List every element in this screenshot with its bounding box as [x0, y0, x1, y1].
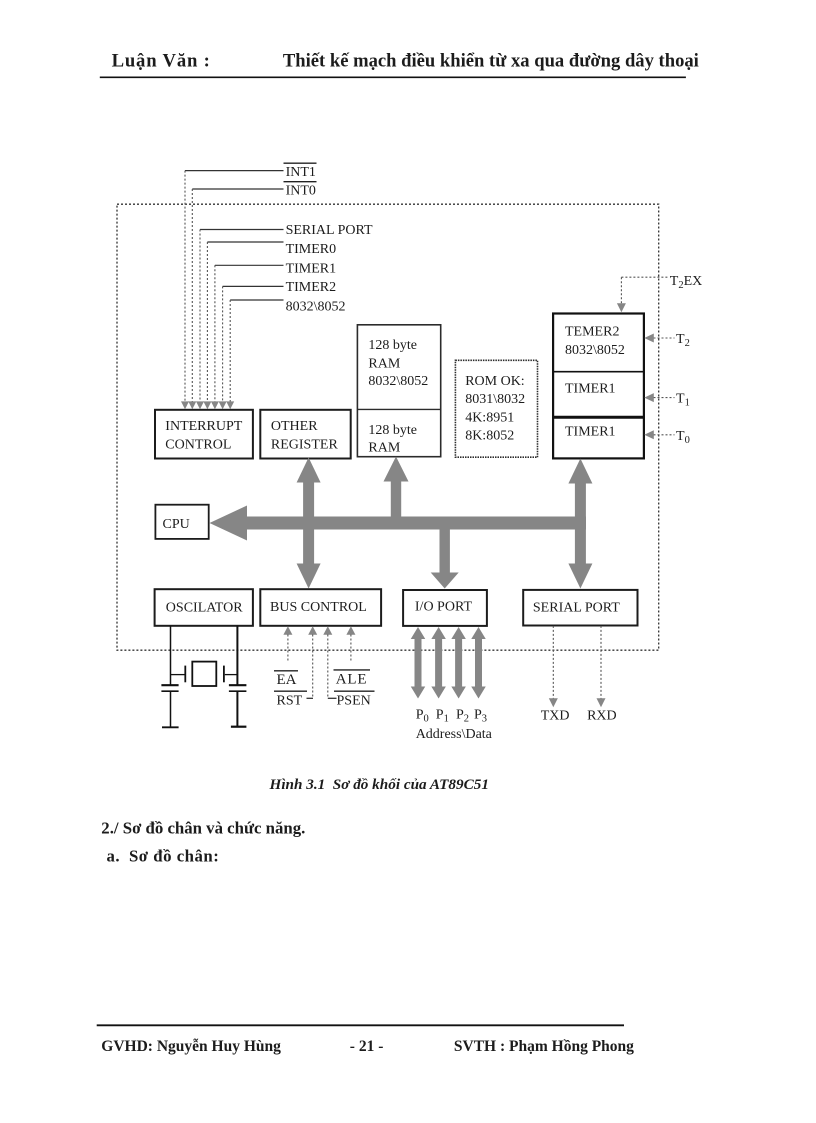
svg-text:SERIAL PORT: SERIAL PORT — [533, 600, 620, 615]
svg-text:4K:8951: 4K:8951 — [465, 410, 514, 425]
svg-text:CPU: CPU — [163, 517, 190, 532]
svg-text:P2: P2 — [456, 708, 469, 725]
svg-text:8K:8052: 8K:8052 — [465, 429, 514, 444]
svg-text:SERIAL PORT: SERIAL PORT — [286, 223, 373, 238]
svg-text:Thiết kế mạch điều khiển từ xa: Thiết kế mạch điều khiển từ xa qua đường… — [283, 51, 699, 72]
svg-text:EA: EA — [277, 672, 297, 688]
svg-text:P3: P3 — [474, 708, 487, 725]
svg-text:T2EX: T2EX — [670, 274, 702, 291]
svg-text:INT1: INT1 — [286, 165, 316, 180]
svg-text:ALE: ALE — [336, 672, 368, 688]
svg-text:128 byte: 128 byte — [368, 338, 417, 353]
svg-text:TIMER1: TIMER1 — [286, 262, 337, 277]
svg-text:RXD: RXD — [587, 709, 617, 724]
svg-text:TEMER2: TEMER2 — [565, 325, 619, 340]
svg-text:GVHD: Nguyễn Huy Hùng: GVHD: Nguyễn Huy Hùng — [101, 1038, 281, 1055]
svg-text:BUS CONTROL: BUS CONTROL — [270, 600, 367, 615]
svg-text:ROM OK:: ROM OK: — [465, 374, 525, 389]
svg-text:8032\8052: 8032\8052 — [565, 343, 625, 358]
svg-text:TIMER0: TIMER0 — [286, 242, 337, 257]
svg-text:T0: T0 — [676, 429, 690, 446]
svg-text:T2: T2 — [676, 332, 690, 349]
svg-text:P0: P0 — [416, 708, 429, 725]
svg-text:RAM: RAM — [368, 357, 400, 372]
svg-text:8032\8052: 8032\8052 — [286, 299, 346, 314]
svg-text:TIMER1: TIMER1 — [565, 382, 616, 397]
svg-text:Address\Data: Address\Data — [416, 727, 493, 742]
svg-text:- 21 -: - 21 - — [350, 1038, 384, 1055]
svg-text:PSEN: PSEN — [337, 694, 371, 709]
svg-text:P1: P1 — [436, 708, 449, 725]
svg-text:OTHER: OTHER — [271, 419, 318, 434]
svg-text:8032\8052: 8032\8052 — [368, 374, 428, 389]
svg-text:Luận Văn :: Luận Văn : — [112, 51, 211, 72]
svg-text:8031\8032: 8031\8032 — [465, 392, 525, 407]
svg-text:TIMER2: TIMER2 — [286, 280, 337, 295]
svg-text:INTERRUPT: INTERRUPT — [165, 419, 242, 434]
svg-text:RAM: RAM — [368, 441, 400, 456]
svg-text:a. Sơ đồ chân:: a. Sơ đồ chân: — [107, 847, 220, 866]
svg-text:I/O PORT: I/O PORT — [415, 600, 473, 615]
svg-text:OSCILATOR: OSCILATOR — [166, 601, 243, 616]
svg-text:T1: T1 — [676, 392, 690, 409]
svg-text:2./ Sơ đồ chân và chức năng.: 2./ Sơ đồ chân và chức năng. — [101, 819, 305, 838]
svg-text:INT0: INT0 — [286, 184, 316, 199]
svg-text:Hình 3.1 Sơ đồ khối của AT89C: Hình 3.1 Sơ đồ khối của AT89C51 — [269, 776, 489, 793]
svg-text:SVTH : Phạm Hồng Phong: SVTH : Phạm Hồng Phong — [454, 1038, 634, 1055]
svg-text:128 byte: 128 byte — [368, 423, 417, 438]
svg-text:REGISTER: REGISTER — [271, 438, 339, 453]
svg-text:CONTROL: CONTROL — [165, 438, 231, 453]
svg-text:TIMER1: TIMER1 — [565, 424, 616, 439]
svg-text:RST: RST — [277, 694, 303, 709]
svg-text:TXD: TXD — [541, 709, 570, 724]
